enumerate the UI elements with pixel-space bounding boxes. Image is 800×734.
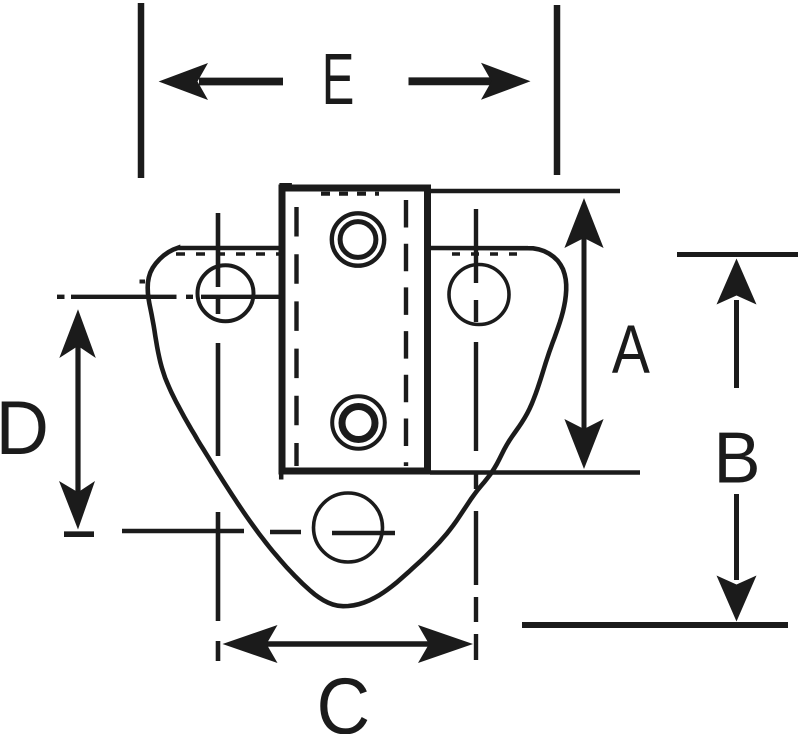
- D bottom tick: [64, 531, 94, 537]
- bottom hole: [314, 493, 383, 562]
- hidden dashes below boss top edge: [321, 192, 379, 196]
- A bottom extension line: [430, 470, 640, 475]
- centerline vertical through right hole: [474, 209, 478, 660]
- hidden edge dashes under plate top edge (right): [452, 252, 527, 256]
- centerline horizontal (bottom hole): [122, 531, 395, 533]
- right hole: [449, 265, 509, 325]
- E right arrow: [409, 63, 531, 100]
- svg-text:A: A: [612, 312, 650, 388]
- A top extension line: [430, 189, 620, 194]
- centerline vertical through left hole: [216, 213, 221, 661]
- hidden line right inside boss: [404, 200, 408, 466]
- svg-text:B: B: [714, 418, 761, 499]
- left hole: [198, 265, 254, 321]
- plate left edge stub: [140, 280, 146, 284]
- B bottom extension line: [522, 622, 788, 628]
- rectangle boss (raised block): [282, 188, 428, 471]
- svg-text:C: C: [317, 662, 371, 734]
- boss bottom hole inner: [342, 407, 375, 440]
- dimension A arrow line: [564, 198, 603, 469]
- boss bottom-left corner stub: [279, 471, 284, 480]
- boss top hole outer: [332, 213, 384, 265]
- D dimension arrow line: [59, 309, 96, 529]
- hidden edge dashes under plate top edge (left): [176, 252, 280, 256]
- boss top-left corner tab: [279, 183, 292, 189]
- C dimension double arrow: [223, 625, 474, 663]
- wire: E left extension line: [138, 3, 145, 178]
- wire: E right extension line: [554, 5, 561, 175]
- svg-text:E: E: [322, 39, 355, 120]
- svg-text:D: D: [0, 385, 49, 470]
- boss bottom hole outer: [332, 396, 385, 449]
- dimension B arrow line: [717, 259, 757, 622]
- centerline horizontal (dash-dot) through left hole: [57, 295, 287, 299]
- boss top hole inner: [340, 222, 376, 258]
- B top extension line: [677, 252, 798, 257]
- hidden line left inside boss: [294, 207, 298, 466]
- E left arrow: [159, 63, 283, 100]
- plate outline (heart shaped base): [148, 248, 567, 606]
